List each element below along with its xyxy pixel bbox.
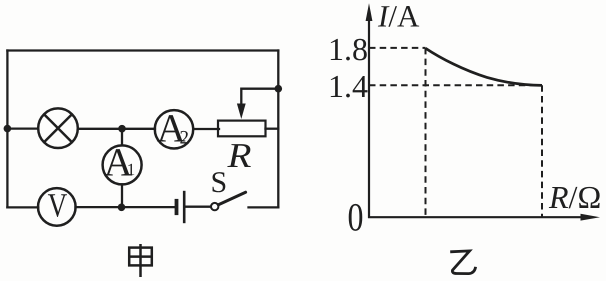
- wire lamp to A2: [78, 128, 155, 130]
- label 乙 (caption, drawn strokes): [450, 251, 475, 274]
- x-axis R: [368, 216, 582, 218]
- wire top: [7, 49, 278, 51]
- junction node right (wiper tap): [275, 85, 283, 93]
- curve I vs R: [426, 48, 543, 85]
- wire bottom left: [7, 206, 38, 208]
- wire left: [6, 51, 8, 208]
- wire wiper from right rail: [241, 89, 278, 105]
- dashed guide vertical at curve start: [425, 48, 427, 217]
- svg-text:S: S: [211, 166, 228, 199]
- dashed guide vertical at curve end: [541, 85, 543, 217]
- lamp L1: [38, 108, 78, 148]
- rheostat R body: [218, 121, 266, 137]
- wire A1 lower: [121, 184, 123, 207]
- y-axis I: [368, 18, 370, 218]
- wire A1 upper: [121, 129, 123, 146]
- junction node mid: [118, 125, 126, 133]
- dashed guide 1.8 horizontal: [369, 47, 426, 49]
- dashed guide 1.4 horizontal: [369, 84, 542, 86]
- svg-text:V: V: [48, 188, 68, 225]
- ammeter A1: [103, 140, 142, 185]
- wire right: [277, 51, 279, 208]
- svg-text:I/A: I/A: [377, 0, 420, 34]
- ammeter A2: [155, 106, 193, 151]
- switch S blade: [218, 192, 245, 205]
- wire rheostat to right: [266, 128, 279, 130]
- junction node left: [4, 125, 12, 133]
- wire A2 to rheostat: [193, 128, 219, 130]
- wire battery to switch: [186, 206, 211, 208]
- battery positive plate (long thin): [183, 191, 186, 223]
- svg-text:R: R: [226, 136, 251, 175]
- rheostat wiper arrowhead: [237, 104, 246, 120]
- x-axis arrowhead: [581, 214, 601, 221]
- svg-text:1.4: 1.4: [328, 68, 368, 104]
- svg-text:R/Ω: R/Ω: [548, 179, 601, 215]
- wire V to battery: [76, 206, 175, 208]
- wire bottom right: [249, 206, 279, 208]
- wire left to lamp: [7, 127, 38, 129]
- svg-text:1: 1: [127, 160, 136, 179]
- voltmeter V: [38, 188, 76, 226]
- junction node bottom: [118, 204, 126, 212]
- label 甲 (caption, drawn strokes): [129, 244, 152, 277]
- svg-text:2: 2: [180, 128, 190, 149]
- battery negative plate (short thick): [175, 199, 179, 215]
- svg-text:1.8: 1.8: [328, 31, 368, 67]
- y-axis arrowhead: [366, 3, 373, 21]
- switch S pivot: [211, 203, 218, 210]
- svg-text:0: 0: [348, 195, 364, 240]
